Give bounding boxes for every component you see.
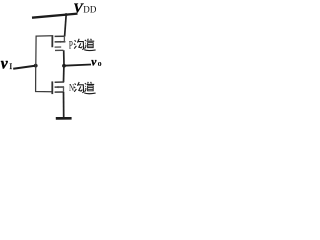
- transistor N-MOSFET body stub: [55, 86, 65, 88]
- wire NMOS source to ground: [63, 92, 65, 118]
- transistor P-MOSFET channel segment: [55, 46, 62, 48]
- transistor P-MOSFET gate bar: [51, 35, 53, 47]
- transistor P-MOSFET body arrow: [61, 41, 64, 43]
- node output junction: [62, 64, 66, 68]
- transistor P-MOSFET body stub: [55, 41, 66, 43]
- label P channel: [69, 39, 73, 52]
- wire input up to PMOS gate: [36, 36, 52, 66]
- label 沟道 (N row): [74, 82, 96, 94]
- wire output lead: [64, 65, 91, 66]
- label vO: [91, 56, 101, 68]
- svg-text:P: P: [69, 39, 73, 52]
- node input junction: [34, 64, 38, 68]
- svg-text:I: I: [9, 61, 12, 71]
- transistor N-MOSFET drain stub: [55, 81, 65, 83]
- svg-text:DD: DD: [83, 4, 97, 14]
- label VDD: [73, 2, 96, 17]
- transistor N-MOSFET body tie: [63, 87, 65, 92]
- transistor P-MOSFET source stub: [55, 35, 65, 37]
- transistor N-MOSFET body arrow: [56, 86, 59, 88]
- wire PMOS drain to output node: [63, 50, 65, 65]
- svg-text:o: o: [98, 59, 102, 68]
- wire VDD rail: [32, 14, 78, 18]
- node VDD junction: [65, 13, 68, 16]
- wire input down to NMOS gate: [36, 66, 52, 92]
- label vI: [1, 56, 13, 73]
- ground: [56, 117, 72, 120]
- svg-text:v: v: [1, 56, 9, 73]
- svg-text:N: N: [69, 82, 74, 94]
- transistor P-MOSFET body tie: [63, 36, 65, 42]
- label 沟道 (P row): [74, 39, 96, 51]
- wire input lead: [13, 66, 35, 69]
- transistor P-MOSFET drain stub: [55, 49, 63, 51]
- wire output node to NMOS drain: [63, 66, 65, 82]
- transistor N-MOSFET source stub: [55, 91, 65, 93]
- svg-text:v: v: [91, 56, 97, 68]
- label N channel: [69, 82, 74, 94]
- wire PMOS source to VDD: [65, 14, 67, 36]
- transistor N-MOSFET gate bar: [51, 81, 53, 94]
